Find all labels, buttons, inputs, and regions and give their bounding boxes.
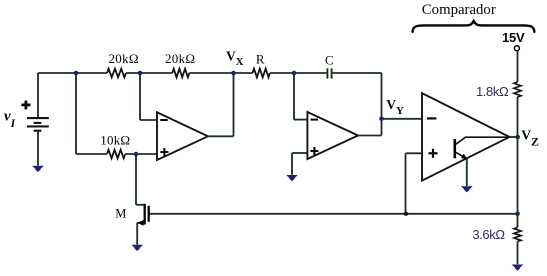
node V_X	[231, 71, 236, 76]
label V_Z	[521, 128, 539, 149]
label 10kOhm	[100, 133, 130, 148]
wire op-amp2 output and feedback riser	[358, 73, 382, 136]
wire from R2 to node V_X	[189, 72, 252, 74]
label 3.6kOhm	[472, 227, 505, 242]
resistor R4 1.8kOhm	[514, 82, 521, 97]
node at rail bottom junction	[515, 212, 520, 217]
node V_Z	[515, 135, 520, 140]
wire R to node C-branch	[270, 72, 326, 74]
ground at op-amp2 plus	[286, 175, 298, 181]
label M	[115, 207, 126, 221]
label v_I	[4, 108, 16, 129]
wire 1.8k through V_Z down to bottom rail	[517, 97, 519, 214]
label C	[325, 53, 334, 68]
wire node A down to 10k	[76, 73, 107, 154]
ground of source	[32, 166, 44, 172]
resistor R3 10kOhm	[107, 150, 125, 159]
wire node C down to op-amp2 minus input	[294, 73, 307, 120]
U1 minus sign	[160, 119, 168, 121]
ground at mosfet source	[131, 245, 143, 251]
svg-text:M: M	[115, 207, 126, 221]
label R	[256, 52, 265, 67]
U1 plus sign	[160, 148, 168, 156]
U3 minus sign	[427, 117, 436, 119]
svg-text:3.6kΩ: 3.6kΩ	[472, 227, 505, 242]
wire comparator plus input down to bottom rail	[406, 153, 423, 214]
label 15V	[502, 30, 525, 45]
wire op-amp2 plus input to ground	[292, 153, 307, 175]
bottom rail wire (gate net)	[149, 213, 518, 215]
wire mosfet drain from node D	[136, 154, 145, 205]
label V_X	[226, 49, 244, 68]
op-amp U2	[307, 112, 358, 159]
label 20kOhm (R2)	[165, 51, 195, 66]
junction node on bottom rail	[404, 212, 408, 216]
wire rail to 3.6k	[517, 214, 519, 228]
op-amp U3 comparator	[422, 93, 510, 180]
voltage source v_I battery	[27, 73, 49, 166]
svg-text:20kΩ: 20kΩ	[165, 51, 195, 66]
resistor R5 3.6kOhm	[514, 228, 521, 242]
U3 plus sign	[429, 149, 438, 158]
mosfet M	[137, 204, 149, 245]
U2 minus sign	[311, 119, 319, 121]
node C-branch junction	[292, 71, 297, 76]
svg-text:10kΩ: 10kΩ	[100, 133, 130, 148]
svg-text:15V: 15V	[502, 30, 525, 45]
supply terminal circle 15V	[514, 46, 519, 51]
resistor R1 20kOhm	[107, 69, 126, 78]
wire V_Y to comparator minus input	[382, 118, 423, 120]
U2 plus sign	[310, 147, 318, 155]
node A on top wire	[74, 71, 79, 76]
wire capacitor to feedback riser	[333, 72, 382, 74]
resistor R2 20kOhm	[172, 69, 189, 78]
label 1.8kOhm	[476, 84, 509, 99]
ground below 3.6k	[512, 265, 524, 271]
op-amp U1	[157, 112, 208, 160]
label Comparador	[422, 2, 496, 18]
label V_Y	[386, 97, 404, 117]
wire 3.6k to ground	[517, 242, 519, 265]
node D (op-amp1 + / mosfet drain junction)	[134, 152, 139, 157]
svg-text:1.8kΩ: 1.8kΩ	[476, 84, 509, 99]
svg-text:Comparador: Comparador	[422, 2, 496, 18]
svg-text:20kΩ: 20kΩ	[109, 51, 139, 66]
ground at Q1 emitter	[461, 186, 473, 192]
svg-text:C: C	[325, 53, 334, 68]
transistor Q1	[455, 137, 510, 186]
label 20kOhm (R1)	[109, 51, 139, 66]
svg-text:R: R	[256, 52, 265, 67]
wire between 20k resistors	[126, 72, 172, 74]
wire 10k to op-amp1 plus input	[125, 153, 157, 155]
plus sign of source	[21, 101, 30, 110]
wire 15V to 1.8k	[517, 51, 519, 82]
capacitor C	[327, 68, 331, 78]
wire comparator output to node V_Z	[510, 136, 518, 138]
resistor R	[253, 69, 271, 78]
wire op-amp1 output up to node V_X	[208, 73, 234, 136]
wire top net segment from source to R1	[38, 72, 107, 74]
brace over comparator	[413, 21, 535, 32]
node B (op-amp1 inverting tap)	[138, 71, 143, 76]
node V_Y	[379, 117, 384, 122]
wire node B down to op-amp1 minus input	[140, 73, 157, 120]
